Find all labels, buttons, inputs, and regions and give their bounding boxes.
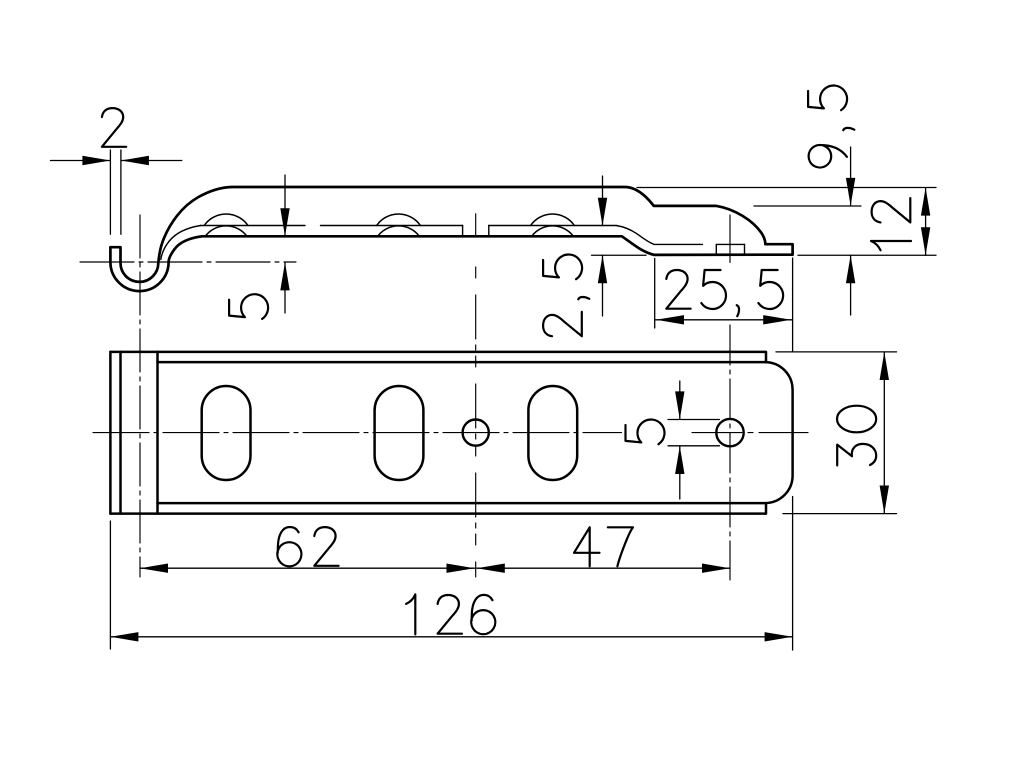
dimension 9,5: step height, dim line (850, 147, 852, 315)
plan view: left end edge (109, 352, 112, 514)
slot 3 (528, 386, 577, 480)
arrowheads dim 5 hole (675, 391, 684, 419)
right mounting hole (716, 419, 743, 446)
plan view: outer top edge with step tick (110, 352, 766, 362)
label 12 (flange height) (871, 198, 911, 250)
slot 1 (202, 386, 251, 480)
side view: top surface step-down slope (616, 226, 654, 245)
dimple 1 upper arc (204, 214, 248, 226)
label 126 (overall length) (406, 594, 495, 634)
label 5 (hole diameter) (626, 419, 665, 444)
dimension 2,5: step offset, dim line (602, 176, 604, 316)
part mid vertical centerline (side view piece) (475, 214, 477, 237)
label 47 (right hole spacing) (574, 527, 633, 566)
side view: plate top surface line segments (201, 225, 617, 227)
arrowheads dim 47 (477, 564, 505, 573)
dimension 5: hook drop, dim line (284, 175, 286, 313)
label 30 (plate width) (837, 406, 876, 466)
plan view: plate body with rounded right end (158, 362, 793, 503)
plan view: hook lip edge line (119, 352, 122, 514)
plan view: outer bottom edge with step tick (110, 503, 766, 513)
extension lines: hole tangents (dim 5) (668, 420, 720, 446)
plan view: hook bend tangent line (156, 352, 159, 514)
plan view horizontal centerline (right part) (692, 432, 808, 434)
side view: closed outline (flange top, right step, end tab, plate bottom, left hook with lip) (110, 187, 792, 291)
extension line: tab right edge lower (dim 126) (792, 497, 794, 651)
dimension 25,5: tab length, dim line (655, 319, 793, 321)
label 9,5 (step height) (808, 85, 854, 167)
extension line: tab right edge upper (dim 25,5 / 126) (792, 258, 794, 351)
arrowheads (82, 156, 930, 642)
extension line: stepped flange top (dim 9,5) (754, 205, 861, 207)
arrowheads dim 12 (921, 188, 930, 216)
dimples (bumps) above slots (204, 214, 574, 236)
dimension 126: overall length, dim line (110, 636, 792, 638)
part mid vertical centerline (475, 267, 477, 577)
dimple 3 lower arc (532, 226, 574, 236)
dimensions 62 and 47: hole spacing, dim lines (140, 567, 730, 569)
dimple 1 lower arc (205, 226, 247, 236)
extension line: step base (dim 25,5 left) (654, 259, 656, 329)
dimple 2 lower arc (378, 226, 420, 236)
plate top surface (thin visible edge) with gaps at holes (161, 226, 745, 260)
dimension 5: hole diameter, dim line (679, 381, 681, 499)
slot 2 (375, 386, 424, 480)
side view: tab top surface line segments (654, 243, 745, 245)
extension lines: hook lip thickness (dim 2) (110, 150, 121, 234)
hook vertical centerline (139, 215, 141, 577)
tab hole edge ticks in side view (716, 244, 744, 254)
extension line: left end (dim 126) (109, 521, 111, 649)
right hole vertical centerline (729, 325, 731, 580)
arrowheads dim 62 (140, 564, 168, 573)
hook centerline (horizontal, side view) (80, 261, 296, 263)
centre hole edge ticks in side view (463, 226, 489, 237)
extension line: tab bottom left (dim 2,5) (592, 254, 647, 256)
arrowheads dim 9,5 (846, 178, 855, 206)
right hole centerline (side view piece) (729, 215, 731, 263)
label 5 (hook drop) (229, 294, 268, 319)
arrowheads dim 5 hook (280, 208, 289, 236)
arrowheads dim 30 (880, 352, 889, 380)
arrowheads dim 126 (110, 632, 138, 641)
label 25,5 (tab length) (666, 270, 783, 316)
arrowheads dim 2,5 (598, 198, 607, 226)
label 2 (lip thickness) (102, 108, 126, 147)
extension line: tab bottom right (dim 12 / 9,5) (798, 254, 936, 256)
plan view horizontal centerline (left part) (93, 432, 622, 434)
dimension 12: flange height, dim line (925, 188, 927, 256)
dimension 2: hook lip thickness, dim line (51, 160, 182, 162)
arrowheads dim 25,5 (656, 315, 684, 324)
dimple 2 upper arc (377, 214, 421, 226)
extension line: plan top edge (dim 30) (776, 351, 897, 353)
label 62 (left hole spacing) (277, 527, 338, 566)
extension line: flange top (dim 12 / 9,5) (637, 187, 936, 189)
extension line: plan bottom edge (dim 30) (783, 513, 897, 515)
label 2,5 (step offset) (543, 254, 589, 336)
dimension 30: plate width, dim line (883, 352, 885, 514)
dimple 3 upper arc (531, 214, 575, 226)
centre hole d5 (463, 420, 489, 446)
side view: plate top surface edge curving into hook (161, 226, 201, 260)
side view outline: flange top, right step, tab, bottom, hook (110, 187, 792, 291)
arrowheads dim 2 (82, 156, 110, 165)
